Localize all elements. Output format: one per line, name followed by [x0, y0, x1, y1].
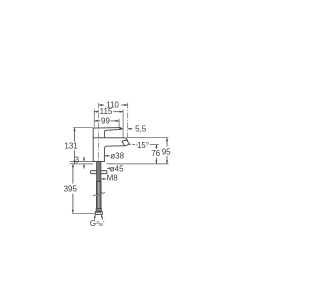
- svg-text:115: 115: [100, 107, 113, 116]
- svg-text:M8: M8: [107, 174, 119, 183]
- shaft stem between body bottom and flange: [91, 162, 107, 215]
- leader arrow M8: [101, 178, 106, 180]
- svg-text:ø45: ø45: [110, 165, 124, 174]
- extension dash-dot x=127.7 (110 right / 5,5): [127, 103, 129, 142]
- flange (escutcheon ø45): [91, 171, 107, 174]
- hose break mark: [93, 192, 105, 196]
- M8 threaded rod (continuous through flange): [97, 162, 101, 182]
- dim 110: [99, 104, 128, 106]
- dim 76 (vertical, right): [155, 145, 157, 164]
- dim 131 (vertical, left): [73, 128, 75, 164]
- 15 deg dashed leader line: [126, 144, 138, 145]
- body-bottom extension line left (3 dim): [70, 160, 93, 162]
- svg-text:131: 131: [64, 142, 78, 151]
- extension line x=119.1 for 99: [118, 119, 120, 128]
- dim 5,5 (arrows outside, pointing inward): [119, 128, 132, 130]
- nut: [95, 212, 102, 215]
- aerator U1: [122, 140, 129, 146]
- hose end fitting ring: [96, 209, 101, 211]
- svg-text:ø38: ø38: [110, 152, 124, 161]
- svg-text:76: 76: [151, 149, 160, 158]
- hose-end extension line (bottom): [72, 212, 95, 214]
- dim 115: [94, 111, 123, 113]
- dim 395 (vertical, left): [72, 164, 74, 213]
- fitting neck: [97, 210, 101, 211]
- full outline (handle, head, body): [93, 128, 127, 162]
- head-top extension line right: [126, 137, 168, 139]
- handle-top extension line (left): [73, 127, 93, 129]
- leader arrow ø38: [105, 155, 110, 157]
- faucet body outline: [93, 128, 129, 162]
- aerator-level extension line right: [150, 144, 159, 146]
- svg-text:99: 99: [101, 116, 110, 125]
- faucet silhouette fill: [93, 128, 129, 162]
- svg-text:95: 95: [162, 147, 171, 156]
- G3/8 leader arrows (below nut): [94, 215, 103, 220]
- dim 3 (vertical, tiny, arrows outside): [83, 157, 85, 169]
- leader arrow for 15 deg (points at aerator face): [123, 143, 126, 145]
- dim 95 (vertical, right): [166, 138, 168, 164]
- centerline x=98.6: [99, 103, 128, 164]
- svg-text:15°: 15°: [137, 141, 149, 150]
- deck extension line right: [107, 163, 169, 165]
- svg-text:3: 3: [75, 155, 80, 164]
- extension line x=123.1 for 115 and 5,5: [122, 109, 124, 137]
- supply hose: [96, 182, 101, 209]
- deck extension line left: [70, 163, 93, 165]
- dim 99: [94, 120, 119, 122]
- svg-text:5,5: 5,5: [135, 124, 147, 133]
- extension line x=94.2 for 115/99: [93, 109, 95, 127]
- svg-text:395: 395: [64, 184, 78, 193]
- leader arrow ø45: [107, 167, 110, 169]
